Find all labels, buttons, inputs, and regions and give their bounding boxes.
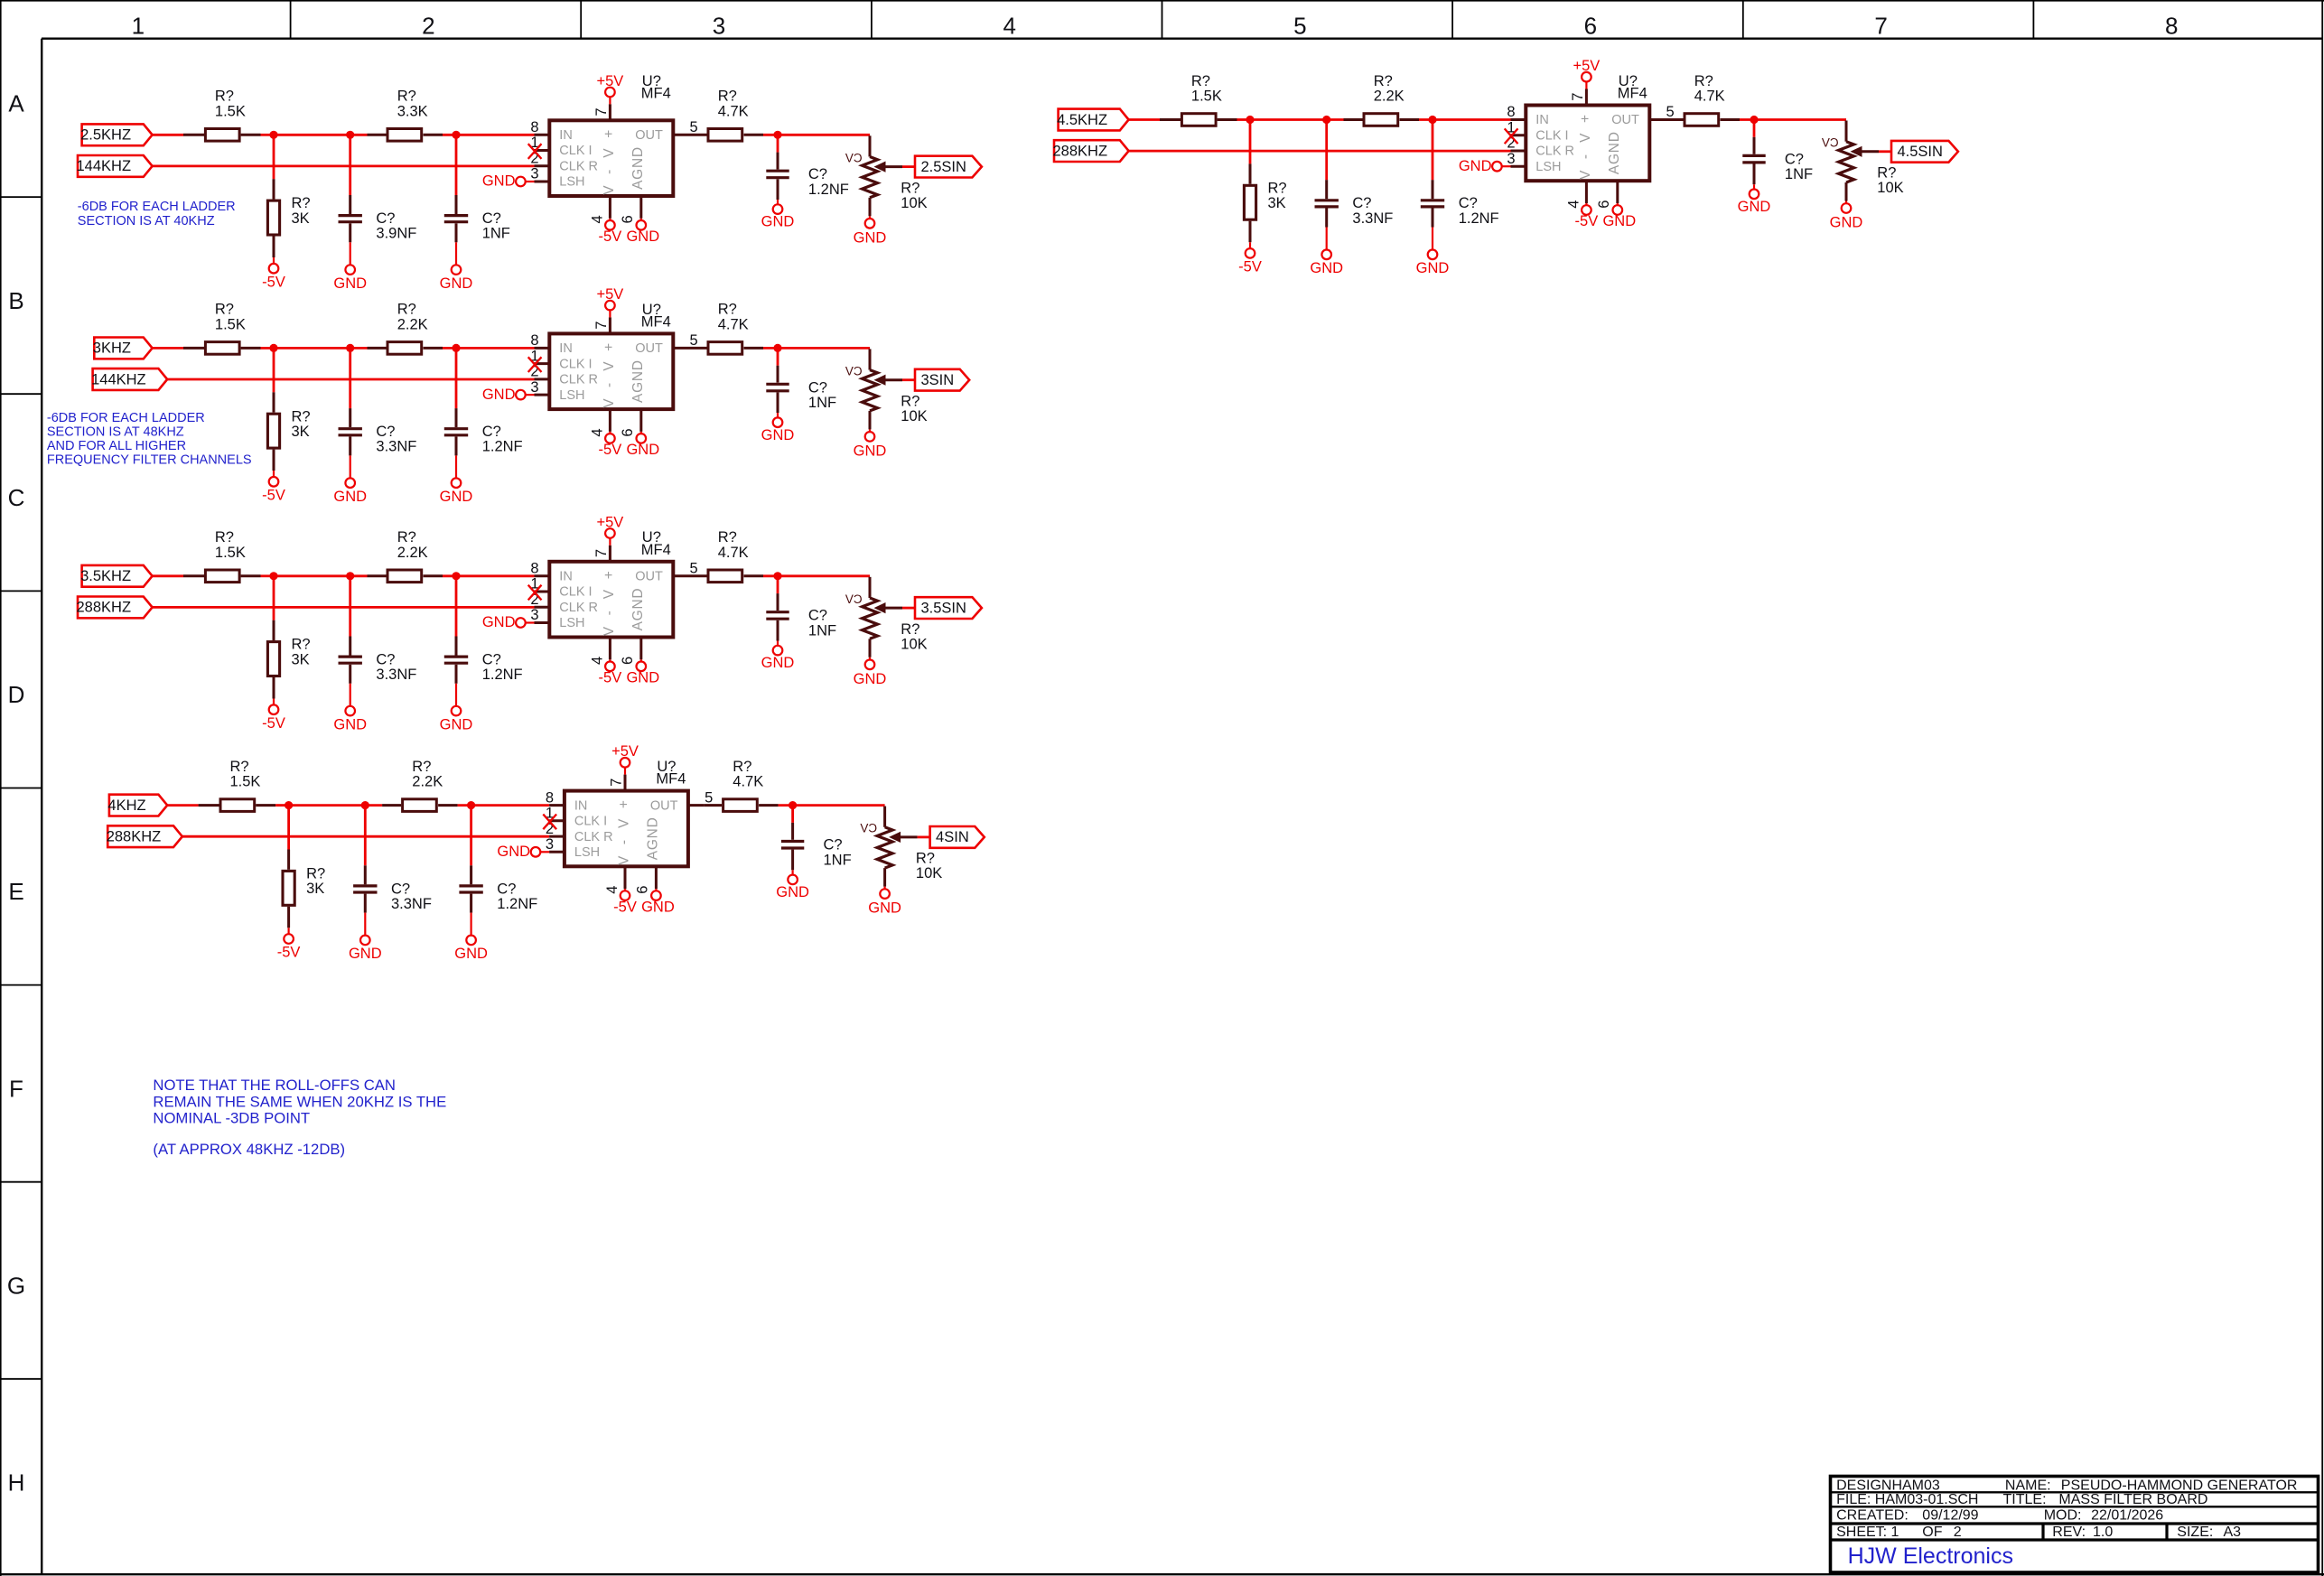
node j4 junction (channel C) xyxy=(773,572,781,580)
svg-text:IN: IN xyxy=(574,798,588,813)
power port GND below C3 (channel C) xyxy=(773,646,783,656)
svg-text:7: 7 xyxy=(1570,93,1586,101)
svg-text:LSH: LSH xyxy=(559,175,584,190)
svg-text:-5V: -5V xyxy=(262,274,285,290)
svg-text:10K: 10K xyxy=(901,408,927,424)
power port GND at pin 6 (channel D) xyxy=(651,891,661,900)
svg-text:FILE: HAM03-01.SCH: FILE: HAM03-01.SCH xyxy=(1836,1492,1978,1507)
svg-text:GND: GND xyxy=(868,900,901,917)
port 4.5SIN output (channel E) xyxy=(1891,141,1958,163)
power port +5V at pin 7 (channel E) xyxy=(1585,82,1587,89)
power port GND at pin 6 (channel C) xyxy=(637,662,647,672)
svg-text:C?: C? xyxy=(824,837,843,853)
wire R1 to node j1 (channel B) xyxy=(261,347,275,350)
svg-text:R?: R? xyxy=(397,89,416,105)
svg-text:LSH: LSH xyxy=(559,388,584,403)
svg-text:R?: R? xyxy=(916,851,935,867)
svg-text:C?: C? xyxy=(808,379,827,396)
svg-text:3.3NF: 3.3NF xyxy=(391,896,432,912)
svg-text:R?: R? xyxy=(292,637,311,653)
svg-text:R?: R? xyxy=(718,302,737,318)
svg-text:2.2K: 2.2K xyxy=(1374,89,1405,105)
svg-text:4SIN: 4SIN xyxy=(936,829,969,845)
svg-text:-5V: -5V xyxy=(1575,213,1599,229)
svg-text:6: 6 xyxy=(620,215,636,223)
power port GND below pot (channel E) xyxy=(1842,203,1852,213)
svg-text:-5V: -5V xyxy=(262,488,285,504)
svg-text:R?: R? xyxy=(215,529,234,546)
resistor R? 2.2K series (channel C) xyxy=(368,574,387,577)
power port GND below C2 (channel C) xyxy=(452,706,462,716)
svg-text:3.3K: 3.3K xyxy=(397,103,428,119)
svg-text:GND: GND xyxy=(776,884,809,900)
svg-text:4.5SIN: 4.5SIN xyxy=(1897,144,1942,160)
svg-text:NOTE THAT THE ROLL-OFFS CAN: NOTE THAT THE ROLL-OFFS CAN xyxy=(153,1077,396,1094)
power port -5V at pin 4 (channel E) xyxy=(1582,205,1591,215)
sheet border frame with reference grid xyxy=(0,0,2,1576)
svg-text:G: G xyxy=(7,1272,25,1299)
svg-text:-5V: -5V xyxy=(599,228,622,245)
svg-text:CLK I: CLK I xyxy=(559,357,592,371)
svg-text:R?: R? xyxy=(901,621,919,638)
wire 3.5KHZ to R1 (channel C) xyxy=(153,574,183,577)
resistor R? 4.7K output (channel A) xyxy=(689,134,707,136)
potentiometer R? 10K (channel B) xyxy=(869,349,872,369)
svg-text:IN: IN xyxy=(1535,113,1549,127)
svg-text:C?: C? xyxy=(497,881,516,897)
svg-text:1.2NF: 1.2NF xyxy=(1459,210,1499,227)
node j2 junction (channel C) xyxy=(346,572,354,580)
power port +5V at pin 7 (channel D) xyxy=(624,768,626,775)
svg-text:+5V: +5V xyxy=(611,743,639,760)
svg-text:4.7K: 4.7K xyxy=(718,545,749,561)
wire R3 to node j4 to pot (channel E) xyxy=(1740,118,1846,121)
wire pot wiper to output port (channel C) xyxy=(902,607,915,610)
capacitor C? 1.2NF output (channel A) xyxy=(777,135,779,152)
wire main net j1 to j3 (channel C) xyxy=(274,574,368,577)
wire R3 to node j4 to pot (channel B) xyxy=(763,347,870,350)
svg-text:1.5K: 1.5K xyxy=(215,317,246,333)
svg-text:7: 7 xyxy=(593,107,610,116)
svg-text:R?: R? xyxy=(230,759,249,775)
svg-text:(AT APPROX 48KHZ -12DB): (AT APPROX 48KHZ -12DB) xyxy=(153,1141,345,1158)
resistor R? 3.3K series (channel A) xyxy=(368,134,387,136)
resistor R? 3K shunt to -5V (channel A) xyxy=(273,135,275,179)
svg-text:R?: R? xyxy=(292,408,311,424)
svg-text:4.7K: 4.7K xyxy=(1694,89,1725,105)
capacitor C? 1NF output (channel D) xyxy=(791,806,794,823)
svg-text:GND: GND xyxy=(349,946,382,962)
svg-text:1.0: 1.0 xyxy=(2093,1525,2113,1540)
node j1 junction (channel B) xyxy=(269,344,277,352)
svg-text:5: 5 xyxy=(690,561,698,577)
svg-text:2: 2 xyxy=(422,13,434,40)
port 288KHZ (channel E) xyxy=(1054,140,1129,162)
node j2 junction (channel B) xyxy=(346,344,354,352)
svg-text:CLK R: CLK R xyxy=(1535,145,1574,159)
wire R1 to node j1 (channel C) xyxy=(261,574,275,577)
node j3 junction (channel A) xyxy=(452,131,460,139)
capacitor C? 3.3NF (channel C) xyxy=(349,576,351,637)
node j2 junction (channel D) xyxy=(361,801,369,809)
svg-text:MF4: MF4 xyxy=(641,86,671,102)
svg-text:1NF: 1NF xyxy=(824,852,852,868)
port 2.5KHZ (channel A) xyxy=(82,124,153,145)
svg-text:LSH: LSH xyxy=(574,845,600,860)
svg-text:6: 6 xyxy=(634,886,650,894)
potentiometer R? 10K (channel A) xyxy=(869,135,872,156)
svg-text:AGND: AGND xyxy=(630,147,646,190)
svg-text:1.2NF: 1.2NF xyxy=(808,182,849,198)
wire pot wiper to output port (channel E) xyxy=(1879,150,1891,153)
wire R1 to node j1 (channel E) xyxy=(1237,118,1251,121)
svg-text:R?: R? xyxy=(306,866,325,882)
resistor R? 1.5K series input (channel B) xyxy=(183,347,204,350)
svg-text:C?: C? xyxy=(482,210,501,227)
svg-text:CLK R: CLK R xyxy=(559,160,598,174)
svg-text:-5V: -5V xyxy=(262,715,285,732)
svg-text:GND: GND xyxy=(761,214,795,230)
svg-text:CV: CV xyxy=(845,151,863,164)
svg-text:GND: GND xyxy=(454,946,488,962)
svg-text:MF4: MF4 xyxy=(1618,86,1647,102)
svg-text:8: 8 xyxy=(1507,104,1515,120)
svg-text:288KHZ: 288KHZ xyxy=(1053,143,1108,159)
svg-text:GND: GND xyxy=(440,275,473,292)
power port -5V below R3K (channel A) xyxy=(269,264,279,274)
svg-text:R?: R? xyxy=(215,89,234,105)
capacitor C? 1NF output (channel B) xyxy=(777,348,779,365)
svg-text:1NF: 1NF xyxy=(482,226,510,242)
svg-text:GND: GND xyxy=(497,844,530,860)
wire 144KHZ net to pin 2 (channel A) xyxy=(153,164,535,167)
svg-text:-5V: -5V xyxy=(277,945,301,961)
svg-text:2.2K: 2.2K xyxy=(397,545,428,561)
svg-text:CLK I: CLK I xyxy=(574,815,607,829)
capacitor C? 3.3NF (channel B) xyxy=(349,348,351,408)
resistor R? 3K shunt to -5V (channel D) xyxy=(287,806,290,850)
svg-text:AGND: AGND xyxy=(1607,132,1622,174)
svg-text:AND FOR ALL HIGHER: AND FOR ALL HIGHER xyxy=(47,439,186,453)
node j2 junction (channel A) xyxy=(346,131,354,139)
svg-text:3.3NF: 3.3NF xyxy=(376,667,416,683)
resistor R? 1.5K series input (channel E) xyxy=(1160,118,1181,121)
svg-text:1.5K: 1.5K xyxy=(1191,89,1222,105)
svg-text:1NF: 1NF xyxy=(1785,166,1813,182)
svg-text:-5V: -5V xyxy=(1238,259,1262,275)
svg-text:R?: R? xyxy=(292,195,311,211)
node j4 junction (channel B) xyxy=(773,344,781,352)
port 144KHZ (channel B) xyxy=(93,368,168,390)
port 144KHZ (channel A) xyxy=(78,155,153,177)
op-amp filter IC U? MF4 (channel E) xyxy=(1526,106,1649,182)
svg-text:GND: GND xyxy=(761,427,795,443)
svg-text:R?: R? xyxy=(397,529,416,546)
svg-text:2.2K: 2.2K xyxy=(412,774,443,790)
svg-text:LSH: LSH xyxy=(1535,160,1561,174)
svg-text:3K: 3K xyxy=(292,651,310,667)
power port GND below pot (channel C) xyxy=(865,660,875,670)
svg-text:OUT: OUT xyxy=(635,570,663,584)
svg-text:2.5KHZ: 2.5KHZ xyxy=(80,127,131,144)
port 288KHZ (channel D) xyxy=(107,825,182,847)
power port GND below C1 (channel E) xyxy=(1321,250,1331,260)
wire pot wiper to output port (channel A) xyxy=(902,165,915,168)
svg-text:E: E xyxy=(8,878,23,905)
svg-text:+5V: +5V xyxy=(596,286,623,303)
svg-text:4: 4 xyxy=(590,657,606,665)
wire pot wiper to output port (channel D) xyxy=(918,836,930,839)
svg-text:C?: C? xyxy=(1785,151,1804,167)
svg-text:IN: IN xyxy=(559,341,573,356)
power port GND below pot (channel B) xyxy=(865,432,875,442)
svg-text:C?: C? xyxy=(376,424,395,440)
svg-text:7: 7 xyxy=(1874,13,1887,40)
svg-text:GND: GND xyxy=(1602,213,1636,229)
node j3 junction (channel C) xyxy=(452,572,460,580)
capacitor C? 3.9NF (channel A) xyxy=(349,135,351,195)
svg-text:C?: C? xyxy=(808,166,827,182)
svg-text:R?: R? xyxy=(1694,73,1713,89)
svg-text:C?: C? xyxy=(1459,195,1478,211)
power port GND below C1 (channel A) xyxy=(345,265,355,275)
svg-text:OUT: OUT xyxy=(1611,113,1639,127)
port 3SIN output (channel B) xyxy=(915,369,969,391)
power port -5V at pin 4 (channel A) xyxy=(605,220,615,230)
svg-text:OUT: OUT xyxy=(635,341,663,356)
svg-text:2.2K: 2.2K xyxy=(397,317,428,333)
node j4 junction (channel E) xyxy=(1750,116,1758,124)
svg-text:1NF: 1NF xyxy=(808,623,836,639)
svg-text:6: 6 xyxy=(1584,13,1597,40)
svg-text:SECTION IS AT 40KHZ: SECTION IS AT 40KHZ xyxy=(78,214,215,228)
potentiometer R? 10K (channel D) xyxy=(883,807,886,827)
wire R1 to node j1 (channel A) xyxy=(261,134,275,136)
svg-text:8: 8 xyxy=(530,332,538,349)
capacitor C? 1.2NF (channel E) xyxy=(1432,120,1434,181)
svg-text:8: 8 xyxy=(546,789,554,806)
wire 288KHZ net to pin 2 (channel D) xyxy=(182,835,549,838)
svg-text:SIZE:: SIZE: xyxy=(2177,1525,2213,1540)
svg-text:SECTION IS AT 48KHZ: SECTION IS AT 48KHZ xyxy=(47,425,184,440)
svg-text:5: 5 xyxy=(1293,13,1306,40)
power port GND below C3 (channel E) xyxy=(1750,190,1759,200)
svg-text:-5V: -5V xyxy=(599,670,622,686)
node j1 junction (channel A) xyxy=(269,131,277,139)
svg-text:4: 4 xyxy=(1566,200,1582,209)
resistor R? 2.2K series (channel B) xyxy=(368,347,387,350)
svg-text:3K: 3K xyxy=(292,210,310,227)
svg-text:CLK I: CLK I xyxy=(559,585,592,600)
svg-text:GND: GND xyxy=(1416,260,1450,276)
svg-text:3K: 3K xyxy=(306,881,324,897)
svg-text:C: C xyxy=(8,484,25,511)
svg-text:R?: R? xyxy=(718,529,737,546)
node j1 junction (channel E) xyxy=(1246,116,1254,124)
svg-text:8: 8 xyxy=(2165,13,2178,40)
svg-text:3: 3 xyxy=(530,379,538,396)
svg-text:3: 3 xyxy=(530,166,538,182)
power port GND below pot (channel A) xyxy=(865,219,875,228)
svg-text:FREQUENCY FILTER CHANNELS: FREQUENCY FILTER CHANNELS xyxy=(47,453,252,468)
svg-text:A: A xyxy=(8,90,24,117)
op-amp filter IC U? MF4 (channel B) xyxy=(549,333,673,409)
svg-text:5: 5 xyxy=(705,789,713,806)
power port GND below C1 (channel D) xyxy=(360,936,370,946)
svg-text:3: 3 xyxy=(530,607,538,623)
svg-text:GND: GND xyxy=(440,489,473,505)
svg-text:REMAIN THE SAME WHEN 20KHZ IS: REMAIN THE SAME WHEN 20KHZ IS THE xyxy=(153,1093,446,1110)
wire R2 to node j3 to IC pin 8 (channel D) xyxy=(458,804,549,807)
svg-text:GND: GND xyxy=(1738,199,1771,215)
svg-text:3.3NF: 3.3NF xyxy=(1352,210,1393,227)
node j4 junction (channel D) xyxy=(789,801,797,809)
svg-text:C?: C? xyxy=(376,210,395,227)
resistor R? 1.5K series input (channel D) xyxy=(199,804,219,807)
svg-text:-6DB FOR EACH LADDER: -6DB FOR EACH LADDER xyxy=(78,200,236,214)
wire 3KHZ to R1 (channel B) xyxy=(153,347,183,350)
resistor R? 3K shunt to -5V (channel E) xyxy=(1249,120,1252,164)
svg-text:4: 4 xyxy=(604,886,621,894)
svg-text:AGND: AGND xyxy=(630,360,646,403)
wire main net j1 to j3 (channel D) xyxy=(289,804,383,807)
svg-text:1.5K: 1.5K xyxy=(215,545,246,561)
svg-text:C?: C? xyxy=(482,652,501,668)
resistor R? 1.5K series input (channel A) xyxy=(183,134,204,136)
svg-text:GND: GND xyxy=(761,655,795,671)
capacitor C? 3.3NF (channel E) xyxy=(1325,120,1328,181)
svg-text:R?: R? xyxy=(901,180,919,196)
node j3 junction (channel D) xyxy=(467,801,475,809)
wire 288KHZ net to pin 2 (channel E) xyxy=(1129,150,1511,153)
svg-text:1.2NF: 1.2NF xyxy=(482,439,523,455)
node j2 junction (channel E) xyxy=(1322,116,1330,124)
power port +5V at pin 7 (channel A) xyxy=(609,97,611,104)
power port +5V at pin 7 (channel C) xyxy=(609,538,611,546)
svg-text:MASS FILTER BOARD: MASS FILTER BOARD xyxy=(2058,1492,2207,1507)
resistor R? 2.2K series (channel D) xyxy=(382,804,401,807)
svg-text:DESIGNHAM03: DESIGNHAM03 xyxy=(1836,1478,1940,1493)
svg-text:10K: 10K xyxy=(916,865,942,881)
resistor R? 4.7K output (channel B) xyxy=(689,347,707,350)
svg-text:GND: GND xyxy=(854,229,887,246)
svg-text:-6DB FOR EACH LADDER: -6DB FOR EACH LADDER xyxy=(47,411,205,425)
svg-text:LSH: LSH xyxy=(559,616,584,630)
svg-text:3KHZ: 3KHZ xyxy=(93,340,131,357)
power port +5V at pin 7 (channel B) xyxy=(609,310,611,317)
power port GND below pot (channel D) xyxy=(880,889,890,899)
svg-text:CV: CV xyxy=(845,592,863,606)
svg-text:4: 4 xyxy=(590,428,606,436)
op-amp filter IC U? MF4 (channel A) xyxy=(549,120,673,196)
svg-text:TITLE:: TITLE: xyxy=(2003,1492,2047,1507)
port 3.5KHZ (channel C) xyxy=(82,565,153,587)
power port -5V below R3K (channel B) xyxy=(269,477,279,487)
svg-text:GND: GND xyxy=(333,489,367,505)
svg-text:1.5K: 1.5K xyxy=(215,103,246,119)
svg-text:6: 6 xyxy=(1596,200,1612,209)
svg-text:2: 2 xyxy=(1954,1525,1962,1540)
power port -5V at pin 4 (channel B) xyxy=(605,434,615,443)
svg-text:GND: GND xyxy=(482,173,516,190)
power port -5V below R3K (channel E) xyxy=(1246,248,1255,258)
power port GND below C1 (channel B) xyxy=(345,478,355,488)
svg-text:MF4: MF4 xyxy=(656,771,686,788)
wire 4.5KHZ to R1 (channel E) xyxy=(1129,118,1160,121)
svg-text:1NF: 1NF xyxy=(808,395,836,411)
svg-text:GND: GND xyxy=(854,443,887,459)
svg-text:OUT: OUT xyxy=(650,798,678,813)
potentiometer R? 10K (channel C) xyxy=(869,577,872,598)
svg-text:R?: R? xyxy=(1268,180,1287,196)
resistor R? 4.7K output (channel D) xyxy=(704,804,722,807)
svg-text:288KHZ: 288KHZ xyxy=(107,829,162,845)
wire main net j1 to j3 (channel B) xyxy=(274,347,368,350)
port 4.5KHZ (channel E) xyxy=(1059,109,1129,131)
svg-text:3SIN: 3SIN xyxy=(920,372,954,388)
svg-text:REV:: REV: xyxy=(2052,1525,2086,1540)
port 3KHZ (channel B) xyxy=(94,338,152,359)
port 4KHZ (channel D) xyxy=(109,795,167,816)
svg-text:5: 5 xyxy=(690,332,698,349)
wire main net j1 to j3 (channel A) xyxy=(274,134,368,136)
capacitor C? 1.2NF (channel C) xyxy=(455,576,458,637)
svg-text:3.9NF: 3.9NF xyxy=(376,226,416,242)
svg-text:CV: CV xyxy=(1822,136,1839,150)
power port GND below C2 (channel B) xyxy=(452,478,462,488)
svg-text:7: 7 xyxy=(593,549,610,557)
svg-text:SHEET: 1: SHEET: 1 xyxy=(1836,1525,1899,1540)
node j1 junction (channel D) xyxy=(285,801,293,809)
power port GND at pin 6 (channel A) xyxy=(637,220,647,230)
power port -5V below R3K (channel D) xyxy=(284,934,294,944)
svg-text:4KHZ: 4KHZ xyxy=(107,797,145,814)
wire 2.5KHZ to R1 (channel A) xyxy=(153,134,183,136)
svg-text:+5V: +5V xyxy=(1573,58,1600,74)
svg-text:GND: GND xyxy=(1459,158,1492,174)
port 3.5SIN output (channel C) xyxy=(915,597,982,619)
title block frame xyxy=(1831,1477,2319,1573)
capacitor C? 1.2NF (channel D) xyxy=(470,806,472,866)
svg-text:4.7K: 4.7K xyxy=(718,103,749,119)
svg-text:B: B xyxy=(8,287,23,314)
wire R2 to node j3 to IC pin 8 (channel A) xyxy=(443,134,535,136)
svg-text:D: D xyxy=(8,681,25,708)
power port -5V at pin 4 (channel C) xyxy=(605,662,615,672)
svg-text:A3: A3 xyxy=(2224,1525,2242,1540)
svg-text:MF4: MF4 xyxy=(641,314,671,331)
svg-text:2.5SIN: 2.5SIN xyxy=(920,159,966,175)
wire R1 to node j1 (channel D) xyxy=(275,804,289,807)
port 288KHZ (channel C) xyxy=(78,597,153,619)
svg-text:4: 4 xyxy=(1003,13,1015,40)
svg-text:GND: GND xyxy=(482,614,516,630)
wire pot wiper to output port (channel B) xyxy=(902,378,915,381)
svg-text:MOD:: MOD: xyxy=(2044,1508,2082,1524)
svg-text:GND: GND xyxy=(440,716,473,732)
wire 288KHZ net to pin 2 (channel C) xyxy=(153,606,535,609)
svg-text:4: 4 xyxy=(590,215,606,223)
svg-text:NAME:: NAME: xyxy=(2005,1478,2051,1493)
svg-text:R?: R? xyxy=(901,393,919,409)
svg-text:NOMINAL -3DB POINT: NOMINAL -3DB POINT xyxy=(153,1110,310,1127)
svg-text:CV: CV xyxy=(860,822,877,835)
svg-text:GND: GND xyxy=(626,670,659,686)
svg-text:GND: GND xyxy=(1830,215,1863,231)
svg-text:10K: 10K xyxy=(901,195,927,211)
svg-text:R?: R? xyxy=(412,759,431,775)
svg-text:C?: C? xyxy=(376,652,395,668)
